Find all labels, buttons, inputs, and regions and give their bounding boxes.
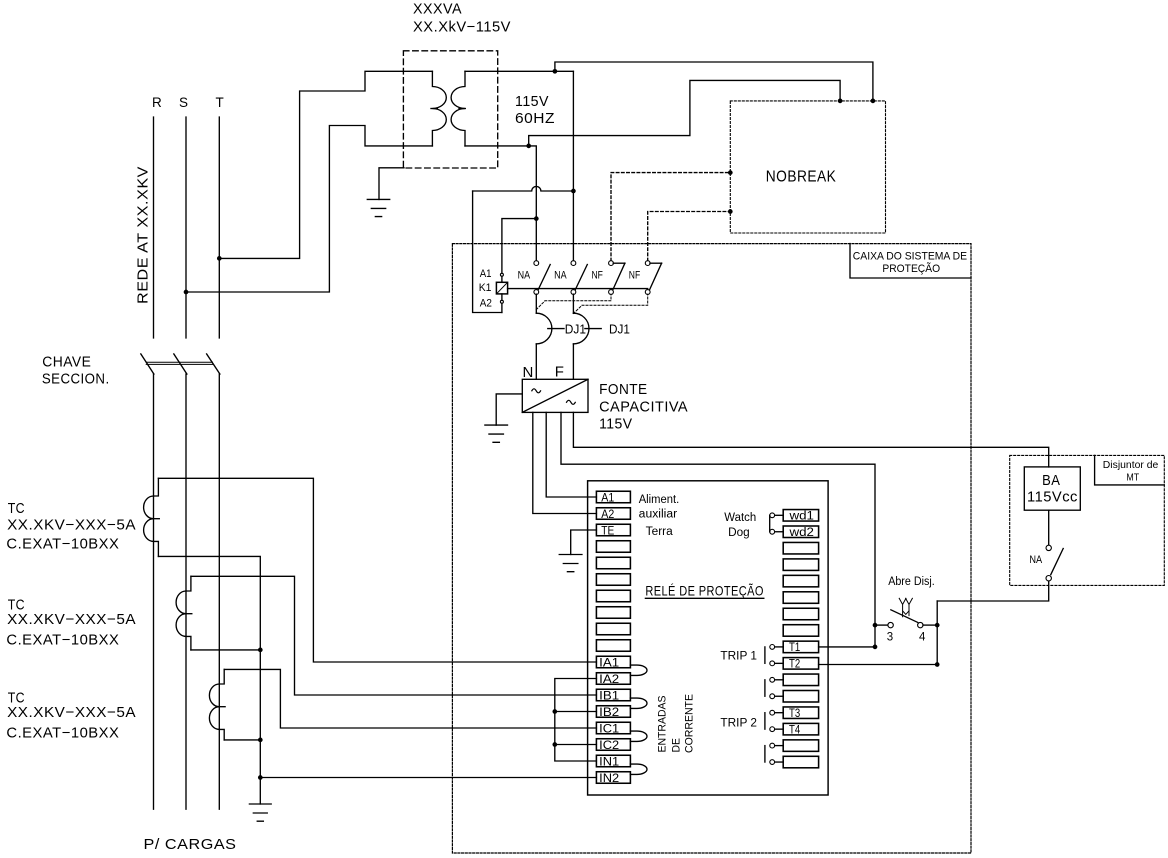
wire BA to NA contact (1048, 510, 1050, 545)
svg-text:C.EXAT−10BXX: C.EXAT−10BXX (6, 724, 119, 741)
relay terminal T3 (right col, y=712.7) (783, 707, 818, 720)
terminal circle for blank (770, 694, 783, 699)
wire right bus to NA contact (937, 581, 1048, 601)
relay terminal blank (left col, y=546.5) (596, 541, 630, 553)
fonte diagonal (522, 379, 588, 412)
BA battery box (1024, 467, 1080, 510)
K1 coil terminal A2 circle (500, 300, 503, 303)
relay terminal blank (right col, y=679.8) (783, 674, 818, 686)
mechanical link contact1-contact3 (dotted) (536, 294, 611, 309)
NA contact (disjuntor) top terminal (1046, 545, 1051, 550)
svg-text:DE: DE (671, 738, 683, 753)
junction secondary top (553, 69, 558, 74)
dashed wire NOBREAK to contact NF2 (648, 212, 731, 261)
svg-text:wd1: wd1 (788, 511, 814, 523)
disjuntor label box (1095, 455, 1165, 485)
contact 2 bottom terminal (571, 290, 576, 295)
svg-text:XXXVA: XXXVA (413, 1, 462, 18)
relay terminal blank (right col, y=597.55) (783, 592, 818, 604)
junction T1 wire (873, 645, 878, 650)
wire main phase drop to contact K1-2 (572, 71, 574, 261)
relay terminal blank (right col, y=548.2) (783, 542, 818, 554)
relay terminal IC2 (left col, y=744.5) (596, 739, 630, 752)
bridge IB1-IB2 (630, 698, 647, 708)
trip2 group bar (764, 713, 766, 729)
wire phase S upper (185, 117, 187, 338)
junction at NOBREAK top left (838, 99, 843, 104)
transformer T1 secondary winding (451, 71, 465, 146)
terminal circle for wd1 (770, 513, 783, 518)
svg-text:Disjuntor de: Disjuntor de (1103, 459, 1159, 471)
TC3 secondary top stub (219, 669, 224, 684)
wire T1 to junction (819, 646, 875, 648)
relay terminal T2 (right col, y=663.35) (783, 658, 818, 671)
svg-text:NOBREAK: NOBREAK (766, 169, 837, 186)
TC2 polarity tick (185, 613, 192, 615)
disconnect switch blade S (174, 354, 187, 374)
svg-text:XX.XKV−XXX−5A: XX.XKV−XXX−5A (7, 704, 136, 721)
relay terminal blank (right col, y=564.65) (783, 559, 818, 571)
svg-text:PROTEÇÃO: PROTEÇÃO (882, 262, 940, 275)
fonte AC tilde top (532, 389, 541, 393)
svg-text:DJ1: DJ1 (565, 323, 586, 337)
junction secondary bottom (526, 144, 531, 149)
svg-text:A2: A2 (601, 509, 614, 521)
bridge IC1-IC2 (630, 731, 647, 741)
svg-text:3: 3 (887, 632, 893, 644)
ground (TC bus) (249, 804, 271, 821)
junction at NOBREAK top right (871, 99, 876, 104)
wire DJ1 arc2 to fonte F (572, 344, 574, 379)
junction TC2 return (258, 648, 263, 653)
terminal circle for T2 (770, 661, 783, 666)
dashed wire NOBREAK to contact NF1 (611, 173, 730, 261)
underline (645, 597, 763, 599)
transformer secondary center tick (459, 108, 465, 110)
svg-text:A1: A1 (480, 268, 492, 280)
svg-text:K1: K1 (479, 282, 492, 294)
DJ1 arc2 tick (585, 328, 601, 330)
abre-disj blade (891, 610, 918, 623)
wire contact1 to DJ1 arc (535, 294, 537, 313)
wire TC common ground bus (158, 556, 260, 804)
wire TC3 return (224, 739, 260, 741)
wire to abre-disj contact 3 (875, 624, 888, 626)
relay terminal IN1 (left col, y=761) (596, 755, 630, 768)
svg-text:SECCION.: SECCION. (42, 371, 110, 388)
wire branch to K1 coil circuit (with hop over vertical) (473, 186, 574, 191)
svg-text:IB2: IB2 (599, 707, 619, 719)
svg-text:NA: NA (1029, 554, 1042, 566)
svg-text:CAPACITIVA: CAPACITIVA (599, 398, 688, 415)
wire TC2 return (191, 649, 260, 651)
DJ1 position switch arc 1 (536, 313, 552, 344)
wire phase S lower (185, 374, 187, 809)
svg-text:T: T (216, 95, 225, 110)
wire fonte out to abre-disj branch (561, 412, 875, 647)
junction abre-disj right (935, 623, 940, 628)
svg-text:R: R (152, 95, 162, 110)
terminal circle for wd2 (770, 529, 783, 534)
fonte capacitiva box (522, 379, 588, 412)
wire K1 coil A1 feed (502, 219, 536, 273)
relay terminal wd2 (right col, y=531.75) (783, 526, 818, 539)
K1 coil box (496, 282, 507, 294)
wire secondary top terminal (465, 70, 573, 72)
svg-text:NF: NF (592, 269, 604, 281)
contact 1 bottom terminal (534, 290, 539, 295)
K1 coil terminal A1 circle (500, 273, 503, 276)
TC2 secondary winding arcs (176, 591, 186, 636)
wire T-phase feed to transformer primary top (219, 71, 432, 258)
svg-text:C.EXAT−10BXX: C.EXAT−10BXX (6, 632, 119, 649)
terminal circle for T1 (770, 645, 783, 650)
junction NOBREAK left upper (728, 170, 733, 175)
NA contact (disjuntor) bottom terminal (1046, 576, 1051, 581)
relay terminal A1 (left col, y=497) (596, 491, 630, 504)
junction return IB2 (552, 709, 557, 714)
wire DJ1 arc1 to fonte N (535, 344, 537, 379)
group bar 4 (764, 746, 766, 762)
terminal circle for T3 (770, 710, 783, 715)
trip1 group bar (764, 647, 766, 663)
junction abre-disj left (873, 623, 878, 628)
transformer primary center tick (431, 108, 437, 110)
svg-text:XX.XKV−XXX−5A: XX.XKV−XXX−5A (7, 517, 136, 534)
svg-text:S: S (179, 95, 189, 110)
relay terminal IA2 (left col, y=678.5) (596, 673, 630, 686)
contact 2 top terminal (571, 261, 576, 266)
NOBREAK dotted box (730, 101, 885, 233)
svg-text:C.EXAT−10BXX: C.EXAT−10BXX (6, 535, 119, 552)
relay terminal blank (right col, y=762.05) (783, 756, 818, 768)
junction TC3 return (258, 738, 263, 743)
TC3 secondary winding arcs (209, 684, 219, 729)
K1 coil stubs (501, 276, 503, 312)
abre-disj terminal 3 circle (888, 622, 893, 627)
watchdog link bar (769, 515, 771, 531)
svg-text:Watch: Watch (724, 512, 756, 524)
svg-text:Aliment.: Aliment. (639, 494, 680, 506)
relay terminal blank (right col, y=745.6) (783, 740, 818, 752)
svg-text:ENTRADAS: ENTRADAS (657, 696, 669, 753)
relay terminal blank (right col, y=696.25) (783, 691, 818, 703)
contact 3 bottom terminal (609, 290, 614, 295)
junction A1 feed tap (534, 216, 539, 221)
junction NOBREAK left lower (728, 209, 733, 214)
relay terminal IA1 (left col, y=662) (596, 656, 630, 669)
mechanical link contact2-contact4 (dotted) (573, 294, 647, 313)
terminal circle for blank (770, 760, 783, 765)
wire contact2 to DJ1 arc (572, 294, 574, 313)
relay terminal IC1 (left col, y=728) (596, 722, 630, 735)
relay terminal T4 (right col, y=729.15) (783, 723, 818, 736)
svg-text:RELÉ DE PROTEÇÃO: RELÉ DE PROTEÇÃO (645, 582, 763, 598)
ground (transformer) (367, 199, 389, 216)
wire K1 coil return drop (473, 191, 502, 313)
DJ1 position switch arc 2 (573, 313, 589, 344)
net name REDE AT XX.XKV (vertical) (136, 166, 152, 304)
relay terminal blank (left col, y=629) (596, 623, 630, 635)
disconnect switch blade R (141, 354, 154, 374)
relay terminal IN2 (left col, y=777.5) (596, 772, 630, 785)
svg-text:IC1: IC1 (599, 723, 619, 735)
wire contact bottom bus (508, 288, 648, 290)
svg-text:IN2: IN2 (599, 773, 619, 785)
svg-text:wd2: wd2 (788, 527, 814, 539)
svg-text:IC2: IC2 (599, 740, 619, 752)
abre-disj terminal 4 circle (918, 622, 923, 627)
wire TE to ground (571, 530, 597, 555)
junction return IC2 (552, 742, 557, 747)
svg-text:NA: NA (518, 269, 531, 281)
junction on S phase (184, 290, 189, 295)
relay terminal blank (right col, y=581.1) (783, 575, 818, 587)
svg-text:T2: T2 (789, 659, 800, 671)
svg-text:A1: A1 (601, 492, 614, 504)
wire relay current return bus (555, 679, 597, 762)
svg-text:IA1: IA1 (599, 657, 619, 669)
svg-text:TC: TC (8, 500, 25, 517)
svg-text:TRIP 2: TRIP 2 (720, 715, 757, 729)
TC1 secondary top stub (154, 478, 159, 496)
wire phase R upper (153, 117, 155, 338)
contact 3 top terminal (609, 261, 614, 266)
wire TC1 secondary top to relay IA1 (158, 478, 596, 662)
TC2 secondary bottom stub (186, 636, 191, 650)
svg-text:XX.XkV−115V: XX.XkV−115V (413, 19, 511, 36)
relay terminal A2 (left col, y=513.5) (596, 508, 630, 521)
DJ1 arc1 tick (548, 328, 564, 330)
transformer T1 dashed enclosure (403, 51, 497, 168)
terminal circle for T4 (770, 727, 783, 732)
svg-text:F: F (555, 364, 565, 381)
abre-disj actuator (899, 598, 912, 617)
TC1 polarity tick (152, 518, 159, 520)
svg-text:BA: BA (1042, 472, 1060, 489)
ground (TE terra) (559, 555, 582, 572)
contact 1 NA blade (538, 265, 550, 290)
svg-text:NA: NA (554, 269, 567, 281)
contact 4 bottom terminal (645, 290, 650, 295)
wire secondary bottom terminal (465, 146, 536, 261)
svg-text:Terra: Terra (646, 526, 674, 538)
terminal circle for blank (770, 743, 783, 748)
junction IN2 wire (258, 775, 263, 780)
svg-text:NF: NF (629, 269, 641, 281)
svg-text:Dog: Dog (728, 527, 750, 539)
svg-text:TE: TE (601, 525, 614, 537)
junction main drop (571, 189, 576, 194)
relay terminal wd1 (right col, y=515.3) (783, 510, 818, 523)
svg-text:auxiliar: auxiliar (639, 509, 678, 521)
svg-text:REDE AT XX.XKV: REDE AT XX.XKV (136, 166, 152, 304)
svg-text:CAIXA DO SISTEMA DE: CAIXA DO SISTEMA DE (853, 250, 967, 262)
fonte AC tilde bottom (567, 400, 576, 404)
relay terminal blank (right col, y=630.45) (783, 625, 818, 637)
wire right bus vertical (936, 601, 938, 665)
bridge IN1-IN2 (630, 764, 647, 774)
relay terminal blank (left col, y=596) (596, 590, 630, 602)
contact 2 NA blade (575, 265, 587, 290)
ground (fonte) (485, 425, 508, 442)
relay terminal IB1 (left col, y=695) (596, 689, 630, 702)
svg-text:60HZ: 60HZ (515, 110, 555, 127)
svg-text:CORRENTE: CORRENTE (684, 694, 696, 753)
svg-text:XX.XKV−XXX−5A: XX.XKV−XXX−5A (7, 611, 136, 628)
wire bus to relay IN2 (260, 777, 596, 779)
transformer shield ground wire (379, 168, 404, 200)
label DE (vertical) (671, 738, 683, 753)
wire contact4 to right bus (923, 624, 937, 626)
svg-text:A2: A2 (480, 298, 492, 310)
svg-text:P/ CARGAS: P/ CARGAS (144, 836, 237, 853)
relay terminal blank (right col, y=614) (783, 608, 818, 620)
svg-text:N: N (523, 364, 534, 381)
caixa do sistema dash-dot enclosure (452, 244, 971, 853)
svg-text:CHAVE: CHAVE (42, 353, 91, 370)
svg-text:FONTE: FONTE (599, 381, 648, 398)
contact 4 NF blade (650, 263, 662, 290)
wire TC2 secondary top to relay IB1 (191, 576, 596, 695)
contact 3 NF blade (613, 263, 625, 290)
K1 coil diagonal (497, 283, 507, 293)
wire phase T lower (218, 374, 220, 809)
TC1 secondary bottom stub (154, 541, 159, 556)
wire T2 to right bus (819, 664, 938, 666)
relay terminal blank (left col, y=612.5) (596, 607, 630, 619)
switch gang bar (double line) (146, 362, 212, 364)
svg-text:T4: T4 (789, 724, 801, 736)
relay terminal blank (left col, y=645.5) (596, 640, 630, 652)
wire fonte out to relay A2 (533, 412, 597, 513)
wire phase T upper (218, 117, 220, 338)
junction on T phase (217, 256, 222, 261)
caixa label box (850, 244, 971, 278)
relay terminal blank (left col, y=579.5) (596, 574, 630, 586)
TC3 polarity tick (218, 706, 225, 708)
bridge IA1-IA2 (630, 665, 647, 675)
contact 4 top terminal (645, 261, 650, 266)
wire phase R lower (153, 374, 155, 809)
svg-text:TRIP 1: TRIP 1 (720, 648, 757, 662)
svg-text:115V: 115V (515, 93, 549, 110)
contact 3 NF tick (613, 262, 625, 264)
disjuntor de MT dashed enclosure (1010, 455, 1165, 585)
TC1 secondary winding arcs (144, 496, 154, 541)
contact 1 top terminal (534, 261, 539, 266)
relay terminal TE (left col, y=530) (596, 524, 630, 537)
svg-text:115Vcc: 115Vcc (1027, 489, 1078, 506)
svg-text:Abre Disj.: Abre Disj. (888, 576, 935, 588)
TC2 secondary top stub (186, 576, 191, 591)
svg-text:IB1: IB1 (599, 690, 619, 702)
wire fonte out to BA battery (573, 412, 1048, 467)
contact 4 NF tick (650, 262, 662, 264)
svg-text:IA2: IA2 (599, 674, 619, 686)
svg-text:115V: 115V (599, 416, 633, 433)
wire secondary bottom to NOBREAK (529, 80, 840, 145)
relay terminal blank (left col, y=563) (596, 557, 630, 569)
disconnect switch blade T (207, 354, 220, 374)
relay terminal T1 (right col, y=646.9) (783, 641, 818, 654)
svg-text:IN1: IN1 (599, 756, 619, 768)
svg-text:DJ1: DJ1 (609, 323, 630, 337)
svg-text:T1: T1 (789, 642, 800, 654)
NA contact (disjuntor) blade (1051, 549, 1063, 575)
group bar 2 (764, 680, 766, 696)
wire TC3 secondary top to relay IC1 (224, 669, 596, 728)
wire S-phase feed to transformer primary bottom (186, 126, 432, 293)
junction T2 wire (935, 662, 940, 667)
svg-text:4: 4 (919, 632, 926, 644)
rele de protecao box (588, 481, 829, 795)
label CORRENTE (vertical) (684, 694, 696, 753)
wire secondary top to NOBREAK (555, 62, 873, 101)
terminal circle for blank (770, 677, 783, 682)
label ENTRADAS (vertical) (657, 696, 669, 753)
TC3 secondary bottom stub (219, 729, 224, 740)
fonte chassis wire (496, 394, 522, 425)
svg-text:T3: T3 (789, 708, 800, 720)
svg-text:MT: MT (1126, 471, 1139, 483)
relay terminal IB2 (left col, y=711.5) (596, 706, 630, 719)
wire fonte out to relay A1 (546, 412, 596, 497)
transformer T1 primary winding (432, 71, 446, 146)
